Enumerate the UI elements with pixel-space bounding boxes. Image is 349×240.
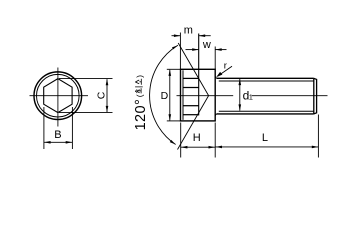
dimension w line with outside arrows xyxy=(186,49,199,51)
dimension B extension lines xyxy=(43,107,45,149)
head outline (side view) xyxy=(181,69,216,121)
svg-text:m: m xyxy=(184,25,193,37)
glyph choe xyxy=(136,89,140,93)
svg-text:w: w xyxy=(202,39,211,51)
shank thread root lines xyxy=(219,80,314,82)
r leader line with arrow xyxy=(218,66,233,76)
vertical center line (end view) xyxy=(57,68,59,127)
120 degree cone line lower xyxy=(178,96,209,150)
dimension B line with arrows xyxy=(44,141,72,143)
screw end face xyxy=(314,78,317,114)
svg-text:): ) xyxy=(135,75,145,78)
svg-text:(: ( xyxy=(135,94,145,97)
svg-text:D: D xyxy=(161,90,169,102)
dimension L line with arrows xyxy=(215,146,318,148)
svg-text:1: 1 xyxy=(249,92,253,101)
dimension D extension lines xyxy=(167,68,180,70)
dimension m line with outside arrows xyxy=(172,35,181,37)
dimension m extension line left xyxy=(179,33,181,70)
hex socket (end view) xyxy=(44,79,72,113)
dimension L extension line right xyxy=(317,115,319,158)
dimension C extension lines xyxy=(59,78,113,80)
dimension d1 line with arrows xyxy=(239,79,241,111)
shank thread crest lines xyxy=(217,77,314,79)
svg-text:C: C xyxy=(95,91,107,99)
dimension H extension lines xyxy=(180,123,182,158)
arc arrowhead lower xyxy=(170,140,176,145)
arc arrowhead upper xyxy=(172,45,178,49)
outer circle (head outline) xyxy=(34,72,82,120)
head left face inner line xyxy=(182,70,184,120)
dimension H line with arrows xyxy=(181,146,215,148)
dimension D line with arrows xyxy=(169,70,171,121)
120 degree dimension arc xyxy=(150,45,178,144)
fillet r bottom xyxy=(215,114,217,116)
inner circle (head chamfer) xyxy=(37,74,80,117)
120 degree cone line upper xyxy=(178,43,208,96)
svg-text:L: L xyxy=(262,132,268,144)
label (min) korean: (choe-so) drawn as paths for font safety xyxy=(135,75,145,98)
hex socket edge lines (side view) xyxy=(183,77,199,79)
dimension C line with arrows xyxy=(106,79,108,112)
glyph so xyxy=(135,80,139,84)
fillet r top xyxy=(215,76,217,78)
socket bottom line / m extension line xyxy=(198,34,200,116)
svg-text:120°: 120° xyxy=(133,99,149,131)
svg-text:H: H xyxy=(193,132,201,144)
dimension w extension line right xyxy=(214,47,216,70)
horizontal center line (end view) xyxy=(30,95,89,97)
screw axis center line xyxy=(177,95,234,97)
svg-text:B: B xyxy=(54,129,61,141)
thread end chamfer line xyxy=(313,78,315,114)
